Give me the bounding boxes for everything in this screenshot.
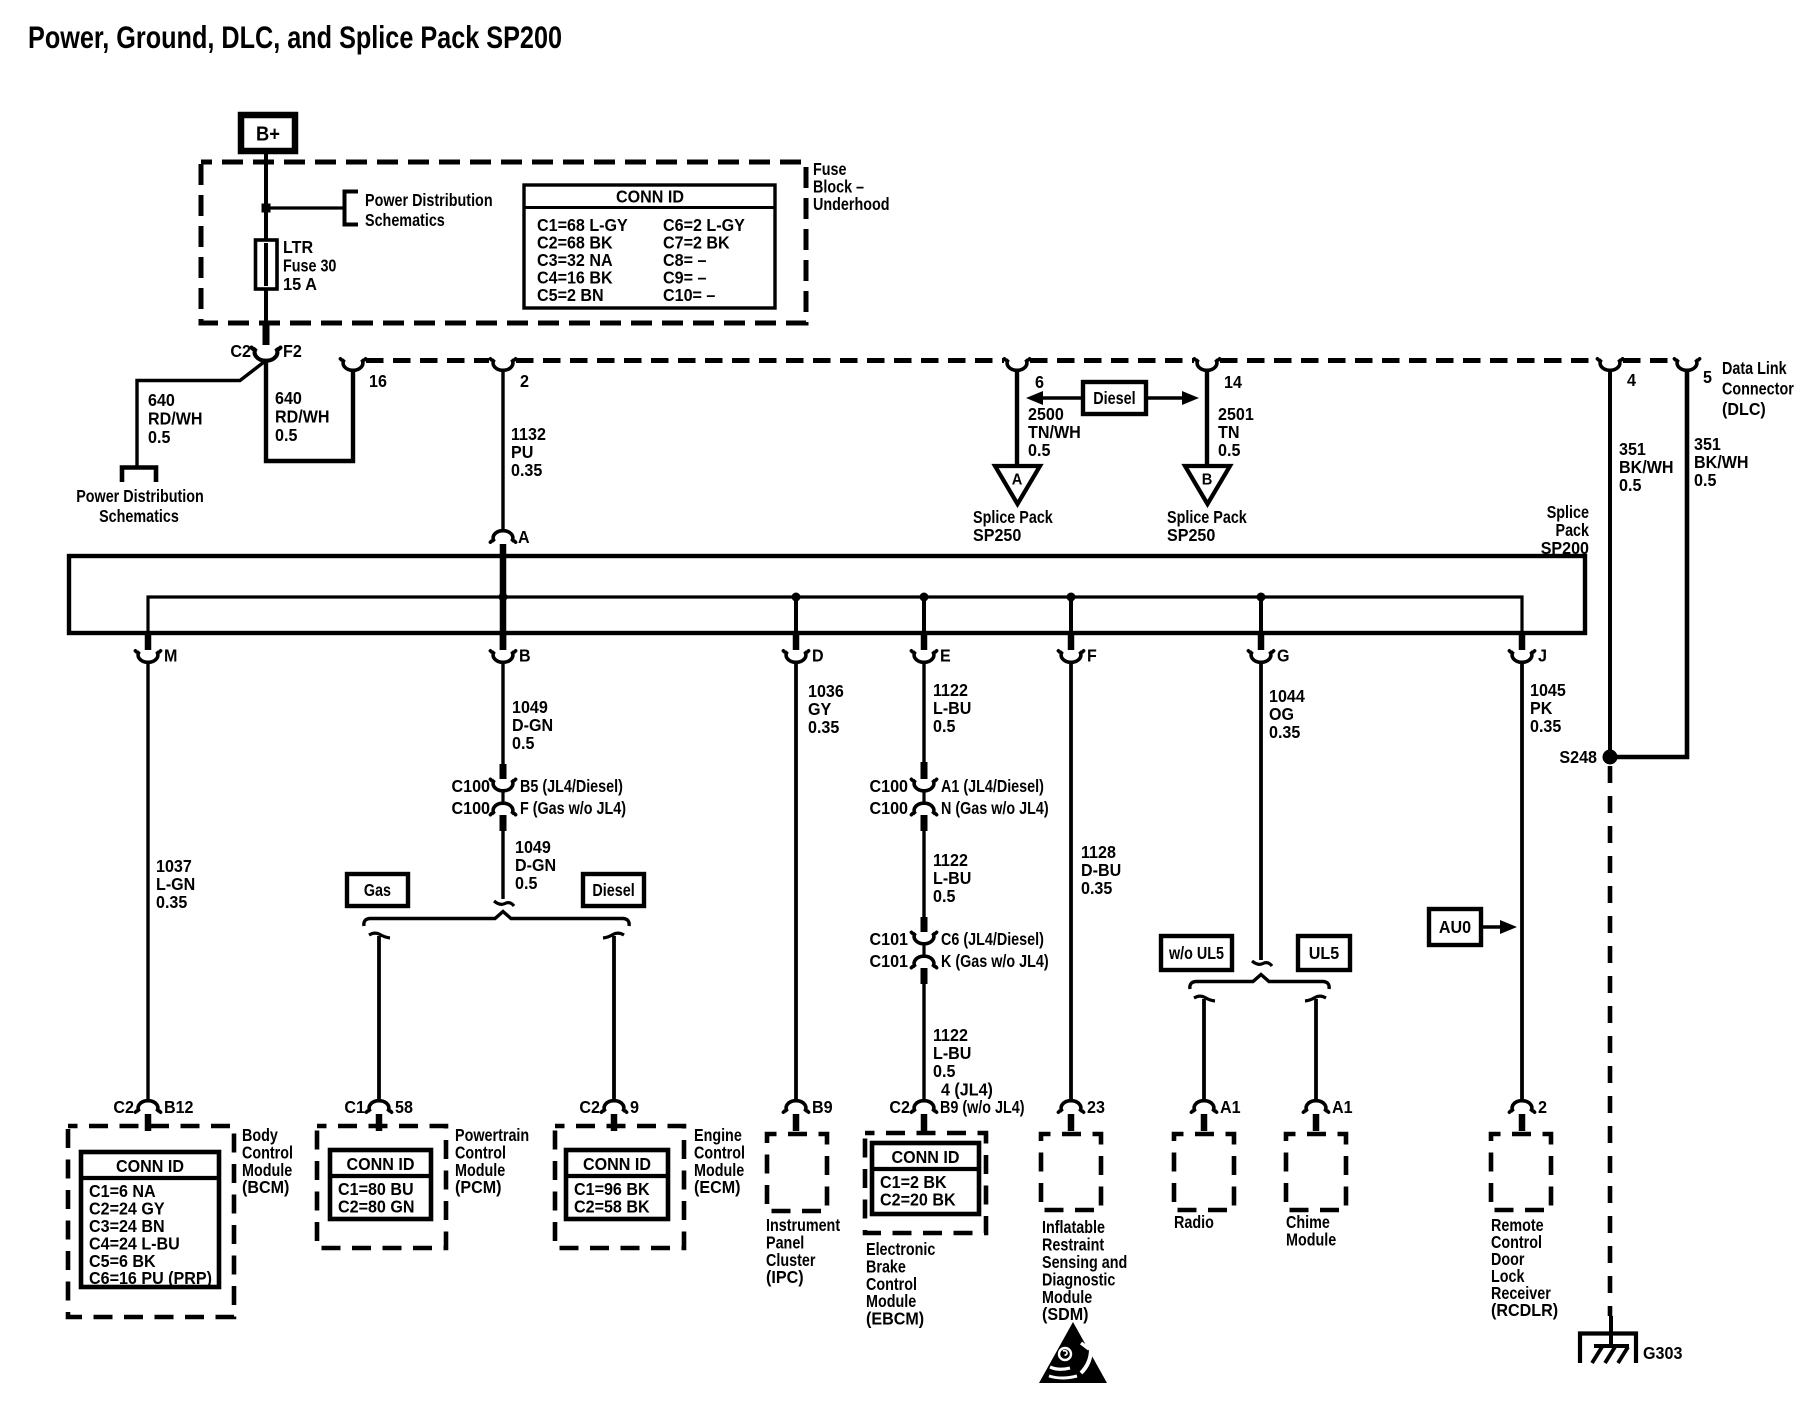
svg-text:C100: C100 xyxy=(870,776,909,796)
svg-text:CONN ID: CONN ID xyxy=(616,187,684,207)
wire 1045 PK (J to RCDLR) xyxy=(1520,664,1524,1100)
UL5 box xyxy=(1298,936,1350,970)
wire 1128 D-BU (F to SDM) xyxy=(1069,664,1073,1100)
wire end curl above gas/diesel split xyxy=(494,901,514,906)
svg-text:351: 351 xyxy=(1619,439,1646,459)
svg-text:58: 58 xyxy=(395,1097,413,1117)
svg-text:Data Link: Data Link xyxy=(1722,358,1787,378)
svg-text:Radio: Radio xyxy=(1174,1212,1214,1232)
wire 1132 PU pin2 to node A xyxy=(501,372,504,529)
svg-text:(RCDLR): (RCDLR) xyxy=(1491,1300,1558,1320)
svg-text:F: F xyxy=(1087,646,1097,666)
connector C2 pin B12 to BCM xyxy=(135,1101,160,1112)
CONN ID table (ECM) xyxy=(566,1150,668,1219)
svg-text:0.35: 0.35 xyxy=(1269,722,1301,742)
battery feed B+ xyxy=(241,115,295,151)
rail drop wire xyxy=(794,597,798,631)
UL5 split brace xyxy=(1190,975,1329,990)
svg-text:C5=2 BN: C5=2 BN xyxy=(537,285,604,305)
svg-text:G: G xyxy=(1277,646,1290,666)
svg-text:OG: OG xyxy=(1269,704,1294,724)
svg-text:0.35: 0.35 xyxy=(1530,716,1562,736)
svg-text:Schematics: Schematics xyxy=(365,210,445,230)
branch hook to ECM xyxy=(603,933,624,938)
svg-text:C2=20 BK: C2=20 BK xyxy=(880,1190,956,1210)
svg-text:E: E xyxy=(940,646,951,666)
instrument panel cluster IPC dashed box xyxy=(767,1134,827,1211)
svg-text:0.5: 0.5 xyxy=(933,1061,956,1081)
svg-text:Connector: Connector xyxy=(1722,379,1794,399)
svg-text:0.5: 0.5 xyxy=(515,873,538,893)
bus terminal J xyxy=(1519,633,1526,650)
svg-text:0.5: 0.5 xyxy=(1694,470,1717,490)
svg-text:PU: PU xyxy=(511,442,533,462)
svg-text:0.35: 0.35 xyxy=(511,460,543,480)
svg-text:S248: S248 xyxy=(1559,747,1597,767)
svg-text:D: D xyxy=(812,646,824,666)
svg-text:1044: 1044 xyxy=(1269,686,1305,706)
wire 640 RD/WH to power distribution (left branch) xyxy=(137,362,264,466)
svg-text:G303: G303 xyxy=(1643,1343,1683,1363)
svg-text:1122: 1122 xyxy=(933,1025,968,1045)
svg-text:Splice Pack: Splice Pack xyxy=(973,507,1053,527)
wire 1122 L-BU (E) lower xyxy=(922,984,925,1100)
svg-text:5: 5 xyxy=(1703,367,1712,387)
node A into SP200 xyxy=(490,531,515,542)
DLC dashed connector line xyxy=(366,358,489,363)
svg-text:0.5: 0.5 xyxy=(1028,440,1051,460)
splice pack SP250 triangle B xyxy=(1185,466,1230,504)
svg-text:TN/WH: TN/WH xyxy=(1028,422,1081,442)
svg-text:B: B xyxy=(1202,472,1213,489)
svg-text:0.35: 0.35 xyxy=(156,892,188,912)
wire 1122 L-BU (E) middle xyxy=(922,830,925,920)
CONN ID table (fuse block) xyxy=(524,185,775,308)
rail junction dot xyxy=(499,593,508,602)
body control module BCM dashed box xyxy=(68,1126,234,1317)
ground G303 xyxy=(1580,1334,1636,1364)
svg-text:1037: 1037 xyxy=(156,856,192,876)
diesel arrow left xyxy=(1040,396,1083,400)
svg-text:A1: A1 xyxy=(1332,1097,1353,1117)
svg-text:0.5: 0.5 xyxy=(933,886,956,906)
svg-text:CONN ID: CONN ID xyxy=(347,1154,415,1174)
svg-text:0.5: 0.5 xyxy=(512,733,535,753)
svg-text:RD/WH: RD/WH xyxy=(275,407,330,427)
svg-text:A1 (JL4/Diesel): A1 (JL4/Diesel) xyxy=(941,776,1044,796)
inflatable restraint SDM dashed box xyxy=(1041,1134,1101,1210)
svg-text:Splice Pack: Splice Pack xyxy=(1167,507,1247,527)
wire 2500 TN/WH xyxy=(1015,372,1019,467)
bus terminal M xyxy=(145,633,152,650)
svg-text:B12: B12 xyxy=(164,1097,194,1117)
svg-text:D-GN: D-GN xyxy=(512,715,553,735)
svg-text:UL5: UL5 xyxy=(1309,943,1340,963)
svg-text:CONN ID: CONN ID xyxy=(892,1147,960,1167)
svg-text:4: 4 xyxy=(1627,370,1636,390)
engine control module ECM dashed box xyxy=(555,1126,684,1248)
svg-text:0.5: 0.5 xyxy=(275,425,298,445)
rail drop wire xyxy=(1069,597,1073,631)
svg-text:(PCM): (PCM) xyxy=(455,1177,502,1197)
svg-text:C2=58 BK: C2=58 BK xyxy=(574,1197,650,1217)
rail junction dot xyxy=(1257,593,1266,602)
svg-text:SP250: SP250 xyxy=(973,525,1022,545)
Gas applicability box xyxy=(347,874,408,906)
svg-text:L-BU: L-BU xyxy=(933,868,971,888)
svg-text:1036: 1036 xyxy=(808,681,844,701)
connector pin B9 to IPC xyxy=(783,1101,808,1112)
bus terminal G xyxy=(1258,633,1265,650)
svg-text:(DLC): (DLC) xyxy=(1722,399,1766,419)
svg-text:640: 640 xyxy=(275,388,302,408)
svg-text:16: 16 xyxy=(369,371,387,391)
svg-text:L-BU: L-BU xyxy=(933,1043,971,1063)
svg-text:A1: A1 xyxy=(1220,1097,1241,1117)
svg-text:2: 2 xyxy=(520,371,529,391)
svg-text:Pack: Pack xyxy=(1556,520,1590,540)
svg-text:0.35: 0.35 xyxy=(808,717,840,737)
powertrain control module PCM dashed box xyxy=(317,1126,446,1248)
svg-text:(ECM): (ECM) xyxy=(694,1177,741,1197)
svg-text:BK/WH: BK/WH xyxy=(1619,457,1674,477)
connector pin A1 to radio xyxy=(1191,1101,1216,1112)
remote control door lock receiver dashed box xyxy=(1491,1134,1551,1210)
DLC pin 14 xyxy=(1194,359,1219,370)
fuse LTR 15A xyxy=(256,240,278,289)
svg-text:SP250: SP250 xyxy=(1167,525,1216,545)
svg-text:2501: 2501 xyxy=(1218,404,1254,424)
svg-text:2: 2 xyxy=(1538,1097,1547,1117)
wire to power distribution bracket xyxy=(266,206,343,209)
fuse block underhood dashed box xyxy=(201,162,806,323)
svg-text:0.5: 0.5 xyxy=(1218,440,1241,460)
svg-text:9: 9 xyxy=(630,1097,639,1117)
svg-text:Power, Ground, DLC, and Splice: Power, Ground, DLC, and Splice Pack SP20… xyxy=(28,19,562,55)
connector pin 23 to SDM xyxy=(1058,1101,1083,1112)
svg-text:C6 (JL4/Diesel): C6 (JL4/Diesel) xyxy=(941,929,1044,949)
svg-text:B: B xyxy=(519,646,531,666)
wire 640 RD/WH jumper F2 to DLC pin 16 xyxy=(266,361,353,461)
branch hook to chime xyxy=(1305,996,1326,1001)
svg-text:1132: 1132 xyxy=(511,424,546,444)
svg-text:B9 (w/o JL4): B9 (w/o JL4) xyxy=(940,1097,1025,1117)
Diesel applicability box (lower) xyxy=(583,874,644,906)
splice pack SP250 triangle A xyxy=(995,466,1040,504)
svg-text:1122: 1122 xyxy=(933,680,968,700)
DLC pin 6 xyxy=(1004,359,1029,370)
svg-text:Module: Module xyxy=(1286,1230,1336,1250)
AU0 arrow xyxy=(1481,925,1502,929)
svg-text:F (Gas w/o JL4): F (Gas w/o JL4) xyxy=(520,798,626,818)
svg-text:TN: TN xyxy=(1218,422,1240,442)
svg-text:C2: C2 xyxy=(579,1097,600,1117)
svg-text:Splice: Splice xyxy=(1547,502,1590,522)
wire 1049 D-GN (B) upper xyxy=(501,664,504,772)
svg-text:B9: B9 xyxy=(812,1097,833,1117)
svg-text:C1: C1 xyxy=(344,1097,365,1117)
svg-text:Underhood: Underhood xyxy=(813,194,890,214)
SRS warning triangle xyxy=(1039,1322,1107,1383)
svg-text:D-GN: D-GN xyxy=(515,855,556,875)
svg-text:C101: C101 xyxy=(870,929,909,949)
svg-text:0.5: 0.5 xyxy=(148,427,171,447)
connector C2 pin 9 to ECM xyxy=(601,1101,626,1112)
bus terminal E xyxy=(921,633,928,650)
wire to chime xyxy=(1314,999,1318,1100)
bus terminal D xyxy=(793,633,800,650)
svg-text:B+: B+ xyxy=(256,124,280,146)
wire 1036 GY (D to IPC) xyxy=(794,664,798,1100)
svg-text:0.5: 0.5 xyxy=(933,716,956,736)
svg-text:BK/WH: BK/WH xyxy=(1694,452,1749,472)
svg-text:C6=16 PU (PRP): C6=16 PU (PRP) xyxy=(89,1268,212,1288)
svg-text:C2: C2 xyxy=(889,1097,910,1117)
wire to radio xyxy=(1202,999,1206,1100)
svg-text:1122: 1122 xyxy=(933,850,968,870)
svg-text:Diesel: Diesel xyxy=(592,880,634,900)
svg-text:640: 640 xyxy=(148,390,175,410)
svg-text:B5 (JL4/Diesel): B5 (JL4/Diesel) xyxy=(520,776,623,796)
svg-text:J: J xyxy=(1538,646,1547,666)
svg-text:L-BU: L-BU xyxy=(933,698,971,718)
svg-text:GY: GY xyxy=(808,699,832,719)
connector C2/F2 at fuse block xyxy=(263,323,270,345)
svg-text:M: M xyxy=(164,646,177,666)
inline connector C100 on B wire xyxy=(500,764,507,779)
CONN ID table (EBCM) xyxy=(872,1143,979,1214)
rail drop wire xyxy=(1259,597,1263,631)
svg-text:2500: 2500 xyxy=(1028,404,1064,424)
connector C2 pin B9 to EBCM xyxy=(911,1101,936,1112)
svg-text:LTR: LTR xyxy=(283,237,313,257)
svg-text:Power Distribution: Power Distribution xyxy=(365,190,493,210)
wire to ECM xyxy=(612,936,616,1100)
DLC pin 2 xyxy=(490,359,515,370)
wire 1122 L-BU (E) upper xyxy=(922,664,925,766)
ground wire S248 to G303 (dashed) xyxy=(1608,766,1613,1316)
CONN ID table (BCM) xyxy=(81,1152,219,1287)
bus terminal B xyxy=(500,633,507,650)
AU0 box xyxy=(1429,909,1481,945)
branch hook to PCM xyxy=(369,933,390,938)
splice pack SP200 bus xyxy=(69,556,1585,633)
wire 2501 TN xyxy=(1205,372,1209,467)
off-page flag: power distribution schematics xyxy=(122,468,156,483)
off-page bracket: power distribution schematics xyxy=(345,192,359,225)
chime module dashed box xyxy=(1286,1134,1346,1210)
inline connector C101 on E wire xyxy=(921,917,928,932)
svg-text:w/o UL5: w/o UL5 xyxy=(1168,943,1224,963)
svg-text:AU0: AU0 xyxy=(1439,917,1471,937)
svg-text:C101: C101 xyxy=(870,951,909,971)
svg-text:A: A xyxy=(518,527,530,547)
bus terminal F xyxy=(1068,633,1075,650)
svg-text:C100: C100 xyxy=(452,776,491,796)
inline connector C100 on E wire xyxy=(921,762,928,779)
svg-text:23: 23 xyxy=(1087,1097,1105,1117)
bus internal rail xyxy=(148,597,1522,631)
splice S248 xyxy=(1603,750,1618,765)
wire 1037 L-GN (M to BCM) xyxy=(146,664,149,1100)
svg-text:C100: C100 xyxy=(452,798,491,818)
svg-text:(EBCM): (EBCM) xyxy=(866,1308,924,1328)
svg-text:N (Gas w/o JL4): N (Gas w/o JL4) xyxy=(941,798,1049,818)
svg-text:15 A: 15 A xyxy=(283,274,317,294)
svg-text:(BCM): (BCM) xyxy=(242,1177,289,1197)
svg-text:C2=80 GN: C2=80 GN xyxy=(338,1197,415,1217)
svg-text:C100: C100 xyxy=(870,798,909,818)
branch hook to radio xyxy=(1194,996,1215,1001)
svg-text:K (Gas w/o JL4): K (Gas w/o JL4) xyxy=(941,951,1049,971)
svg-text:L-GN: L-GN xyxy=(156,874,195,894)
radio dashed box xyxy=(1174,1134,1234,1210)
rail drop wire xyxy=(922,597,926,631)
rail junction dot xyxy=(1067,593,1076,602)
svg-text:6: 6 xyxy=(1035,372,1044,392)
svg-text:C2: C2 xyxy=(230,341,251,361)
svg-text:1045: 1045 xyxy=(1530,680,1566,700)
w/o UL5 box xyxy=(1161,936,1232,970)
svg-text:D-BU: D-BU xyxy=(1081,860,1121,880)
junction node on B+ wire xyxy=(262,204,271,213)
connector C1 pin 58 to PCM xyxy=(366,1101,391,1112)
svg-text:PK: PK xyxy=(1530,698,1553,718)
svg-text:0.5: 0.5 xyxy=(1619,475,1642,495)
svg-text:Diesel: Diesel xyxy=(1093,388,1135,408)
svg-text:C2: C2 xyxy=(113,1097,134,1117)
DLC pin 16 xyxy=(340,359,365,370)
DLC pin 4 xyxy=(1597,359,1622,370)
svg-text:C10= –: C10= – xyxy=(663,285,716,305)
svg-text:351: 351 xyxy=(1694,434,1721,454)
wire 351 BK/WH pin4 to S248 xyxy=(1608,372,1612,752)
wire end curl above UL5 split xyxy=(1252,961,1272,966)
rail junction dot xyxy=(920,593,929,602)
svg-text:CONN ID: CONN ID xyxy=(116,1156,184,1176)
rail junction dot xyxy=(792,593,801,602)
gas/diesel split brace xyxy=(364,912,629,927)
wire to PCM xyxy=(377,936,381,1100)
wire 351 BK/WH pin5 to S248 xyxy=(1615,372,1687,757)
svg-text:RD/WH: RD/WH xyxy=(148,409,203,429)
svg-text:14: 14 xyxy=(1224,372,1242,392)
connector pin 2 to RCDLR xyxy=(1509,1101,1534,1112)
wire B+ to fuse F2 xyxy=(264,152,268,323)
svg-text:Schematics: Schematics xyxy=(99,506,179,526)
svg-text:(IPC): (IPC) xyxy=(766,1267,804,1287)
DLC pin 5 xyxy=(1674,359,1699,370)
svg-text:F2: F2 xyxy=(283,341,302,361)
electronic brake control module EBCM dashed box xyxy=(865,1133,986,1233)
svg-text:1128: 1128 xyxy=(1081,842,1116,862)
connector pin A1 to chime xyxy=(1303,1101,1328,1112)
svg-text:Power Distribution: Power Distribution xyxy=(76,486,204,506)
svg-text:CONN ID: CONN ID xyxy=(583,1154,651,1174)
CONN ID table (PCM) xyxy=(330,1150,431,1219)
svg-text:Fuse 30: Fuse 30 xyxy=(283,256,337,276)
svg-text:0.35: 0.35 xyxy=(1081,878,1113,898)
svg-text:A: A xyxy=(1012,472,1023,489)
svg-text:(SDM): (SDM) xyxy=(1042,1304,1089,1324)
wire 1049 D-GN (B) lower xyxy=(501,830,504,899)
svg-text:1049: 1049 xyxy=(515,837,551,857)
diesel arrow right xyxy=(1146,396,1185,400)
svg-text:Gas: Gas xyxy=(364,880,391,900)
Diesel applicability box xyxy=(1083,382,1146,414)
svg-text:1049: 1049 xyxy=(512,697,548,717)
wire 1044 OG (G) xyxy=(1259,664,1263,960)
